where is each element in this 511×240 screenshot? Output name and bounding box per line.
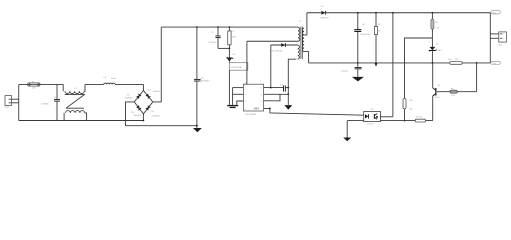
svg-text:222/Y1: 222/Y1 xyxy=(341,71,349,73)
connector CN2 xyxy=(490,32,506,47)
junction xyxy=(287,93,289,95)
wire xyxy=(228,70,230,105)
wire xyxy=(19,120,144,122)
wire xyxy=(19,83,63,85)
wire xyxy=(405,38,433,98)
wire DC+ rail xyxy=(161,26,298,28)
ground xyxy=(193,128,202,132)
wire pin stub xyxy=(237,101,244,105)
wire xyxy=(12,98,19,100)
capacitor C6 (Y-cap) xyxy=(341,63,361,77)
svg-text:1N4007: 1N4007 xyxy=(125,98,133,100)
ground xyxy=(284,105,292,110)
connector CN1 xyxy=(5,96,12,109)
diode D3 xyxy=(136,105,141,110)
transformer T1 xyxy=(298,21,304,59)
capacitor C1 (X-cap) xyxy=(41,84,60,120)
wire secondary bottom xyxy=(304,52,309,63)
wire primary bottom xyxy=(247,40,298,42)
wire output top rail xyxy=(307,12,490,14)
resistor R1 (snubber) xyxy=(228,26,238,48)
junction xyxy=(287,87,289,89)
wire xyxy=(380,116,393,118)
wire base xyxy=(437,91,477,93)
resistor R7 xyxy=(415,117,425,122)
svg-text:1mH: 1mH xyxy=(111,78,116,80)
wire xyxy=(18,84,20,120)
node arrow xyxy=(375,63,378,67)
wire xyxy=(115,83,143,85)
choke L2 xyxy=(63,84,86,120)
resistor R6 xyxy=(450,88,458,97)
junction xyxy=(229,48,231,50)
svg-text:D6 1N4148: D6 1N4148 xyxy=(271,50,283,52)
wire pin stub xyxy=(233,87,244,89)
wire secondary bottom rail xyxy=(309,62,491,64)
wire pin stub drain xyxy=(264,87,284,89)
bridge rectifier wires xyxy=(134,91,153,114)
svg-text:275VAC: 275VAC xyxy=(41,102,49,105)
wire xyxy=(489,13,491,63)
svg-text:472/1kV: 472/1kV xyxy=(208,42,217,44)
node VO- tag xyxy=(491,61,500,65)
wire aux line xyxy=(271,44,298,46)
capacitor C5 (output electrolytic) xyxy=(354,12,371,63)
wire xyxy=(346,121,348,138)
zener Z1 xyxy=(429,44,442,63)
wire pin stub xyxy=(264,94,280,101)
capacitor C4 xyxy=(280,85,288,92)
wire pin stub xyxy=(264,93,289,95)
wire secondary top xyxy=(304,13,307,35)
svg-text:1N4007: 1N4007 xyxy=(133,115,141,117)
junction xyxy=(269,108,271,110)
svg-text:1N4007: 1N4007 xyxy=(152,115,160,117)
svg-text:R7 1k: R7 1k xyxy=(417,117,424,119)
wire xyxy=(142,84,144,90)
wire optocoupler collector line xyxy=(392,12,394,117)
svg-text:18V: 18V xyxy=(438,50,442,52)
zener D5 xyxy=(227,54,236,63)
label box P6KE200A xyxy=(229,63,247,70)
node VO+ tag xyxy=(491,11,500,15)
junction xyxy=(357,62,359,64)
diode D7 xyxy=(321,6,330,20)
diode D6 xyxy=(271,43,285,52)
wire feedback pin xyxy=(264,108,364,115)
optocoupler U2 xyxy=(364,109,381,125)
capacitor C2 (snubber) xyxy=(208,26,229,48)
junction xyxy=(404,120,406,122)
resistor R2 xyxy=(374,12,381,63)
svg-text:+: + xyxy=(363,23,365,27)
ground xyxy=(352,77,364,82)
wire xyxy=(85,83,104,85)
junction xyxy=(143,120,145,122)
wire pin stub xyxy=(233,93,244,95)
transistor Q1 xyxy=(433,63,442,121)
resistor R4 xyxy=(403,99,414,121)
svg-text:9014: 9014 xyxy=(435,97,441,99)
wire xyxy=(232,88,234,105)
wire aux return xyxy=(288,59,296,105)
capacitor C3 (bulk) xyxy=(194,26,210,128)
wire xyxy=(142,114,144,121)
junction xyxy=(270,87,272,89)
junction xyxy=(196,125,198,127)
svg-text:220uF/25v: 220uF/25v xyxy=(360,34,371,36)
inductor L1 xyxy=(104,77,116,84)
wire xyxy=(12,102,19,104)
svg-text:SR3100: SR3100 xyxy=(321,17,330,19)
diode D2 xyxy=(146,94,151,99)
wire xyxy=(126,102,197,126)
svg-text:TNY266PN: TNY266PN xyxy=(245,114,256,116)
svg-text:1N4007: 1N4007 xyxy=(153,91,161,93)
fuse F1 xyxy=(28,82,40,90)
op-amp U1 (switcher IC) xyxy=(243,83,263,116)
wire drain vertical xyxy=(270,45,272,88)
wire xyxy=(153,27,162,102)
ground xyxy=(343,138,351,142)
junction xyxy=(432,62,434,64)
svg-text:PC817: PC817 xyxy=(367,123,374,125)
svg-text:10uF/400V: 10uF/400V xyxy=(199,81,210,83)
wire bottom feedback rail xyxy=(347,120,433,122)
wire xyxy=(228,48,230,58)
diode D1 xyxy=(136,94,141,99)
diode D4 xyxy=(146,106,151,111)
wire xyxy=(476,63,478,92)
svg-text:CN1: CN1 xyxy=(5,107,10,109)
ground (bars) xyxy=(227,105,238,108)
svg-text:P6KE200A: P6KE200A xyxy=(231,66,242,69)
resistor R3 xyxy=(431,12,441,47)
junction xyxy=(476,62,478,64)
svg-text:CN2: CN2 xyxy=(498,45,503,47)
resistor R5 xyxy=(448,59,462,64)
wire IC top pin xyxy=(246,41,248,84)
